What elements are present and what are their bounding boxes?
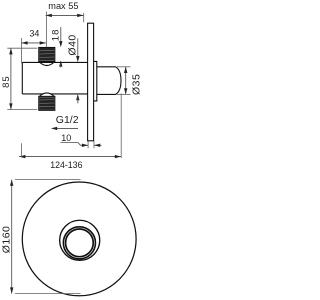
extension line at knob top — [117, 66, 130, 68]
top boss bottom arc — [39, 62, 55, 66]
bottom G1/2 threaded boss outline — [39, 96, 55, 110]
extension line at knob bottom — [117, 93, 130, 95]
knob base circle (front view) — [60, 220, 100, 260]
svg-text:G1/2: G1/2 — [56, 114, 79, 126]
extension line at plate front — [83, 13, 85, 22]
dim 34 right arrowhead — [40, 41, 46, 44]
dim 18 upper tail — [60, 27, 62, 45]
knob base sleeve (side view) — [94, 61, 97, 101]
svg-text:34: 34 — [29, 28, 39, 38]
extension line at bottom boss — [7, 109, 37, 111]
knob handle (side view) — [97, 67, 121, 95]
dim 18 down arrowhead — [59, 41, 62, 47]
dim Ø35 down arrowhead — [124, 88, 127, 94]
dim 85 bottom arrowhead — [9, 103, 12, 109]
svg-text:18: 18 — [51, 29, 62, 42]
dim Ø160 line — [11, 180, 13, 294]
knob ring outer circle (front view) — [63, 227, 95, 259]
dim 85 line — [10, 48, 12, 109]
extension line at body rear face — [20, 143, 22, 157]
svg-text:max 55: max 55 — [48, 1, 78, 11]
svg-text:124-136: 124-136 — [50, 160, 82, 170]
wall plate (rosette, side view) — [88, 23, 94, 141]
dim 85 top arrowhead — [9, 48, 12, 54]
svg-text:10: 10 — [61, 133, 71, 143]
bottom boss thread streaks — [40, 100, 55, 107]
dim 18 up arrowhead — [59, 60, 62, 66]
dim max 55 right arrowhead — [77, 14, 83, 17]
extension line at pipe axis — [45, 12, 47, 48]
dim 10 right tail — [94, 144, 102, 146]
bottom boss top arc — [39, 93, 55, 97]
dim max 55 line — [46, 14, 84, 16]
extension line at knob tip — [120, 93, 122, 158]
dim Ø40 lower tail — [77, 98, 79, 104]
dim 10 shoulder bend — [78, 143, 81, 146]
dim 124-136 left arrowhead — [19, 155, 25, 158]
top boss thread streaks — [40, 50, 55, 57]
dim Ø40 up arrowhead — [76, 94, 79, 100]
knob ring inner circle (front view) — [66, 229, 94, 257]
extension line at plate left face — [87, 141, 89, 148]
dim Ø160 down arrowhead — [10, 287, 13, 293]
extension line at rosette top — [15, 179, 81, 181]
dim 124-136 line — [19, 156, 121, 158]
rosette front view outer circle — [22, 182, 136, 296]
valve body outline (horizontal cylinder, side view) — [22, 62, 87, 94]
dim 34 left arrowhead — [21, 41, 27, 44]
svg-text:85: 85 — [1, 75, 12, 88]
svg-text:Ø160: Ø160 — [1, 226, 13, 254]
dim 124-136 right arrowhead — [115, 155, 121, 158]
dim 18 lower tail — [60, 63, 62, 67]
G1/2 leader arrowhead — [51, 127, 57, 130]
dim Ø160 up arrowhead — [10, 180, 13, 186]
extension line at rosette bottom — [15, 293, 81, 295]
top boss thread fill — [39, 48, 54, 61]
dim Ø35 line — [125, 67, 127, 95]
dim 34 line — [21, 42, 46, 44]
bottom boss thread fill — [39, 97, 54, 110]
extension line at body rear — [20, 38, 22, 63]
dim Ø40 upper tail — [77, 38, 79, 59]
G1/2 leader line — [53, 127, 79, 129]
dim Ø35 up arrowhead — [124, 67, 127, 73]
dim Ø40 down arrowhead — [76, 56, 79, 62]
dim max 55 left arrowhead — [46, 14, 52, 17]
extension line at plate right face — [93, 141, 95, 148]
svg-text:Ø35: Ø35 — [130, 74, 141, 95]
extension line at top boss — [7, 47, 37, 49]
dim 10 left-pointing arrowhead — [94, 144, 100, 147]
top G1/2 threaded boss outline — [39, 48, 55, 62]
dim 10 left tail — [81, 144, 89, 146]
dim 10 shoulder line — [61, 142, 79, 144]
dim 10 right-pointing arrowhead — [82, 144, 88, 147]
svg-text:Ø40: Ø40 — [67, 34, 79, 55]
